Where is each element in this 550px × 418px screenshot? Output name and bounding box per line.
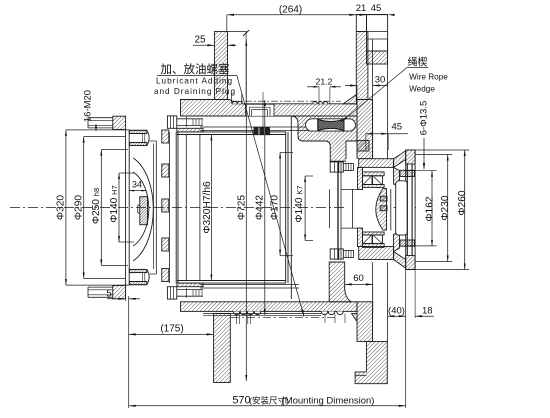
svg-text:30: 30 <box>375 75 386 86</box>
svg-text:Φ162: Φ162 <box>424 196 435 221</box>
svg-text:(264): (264) <box>279 5 302 16</box>
svg-text:5: 5 <box>106 289 112 300</box>
svg-text:Φ140 H7: Φ140 H7 <box>109 185 120 223</box>
svg-text:570: 570 <box>232 395 250 407</box>
svg-text:Φ442: Φ442 <box>254 195 265 220</box>
svg-text:60: 60 <box>353 273 364 284</box>
svg-text:Φ230: Φ230 <box>440 195 451 220</box>
svg-text:(175): (175) <box>160 324 183 335</box>
svg-text:Φ320H7/h6: Φ320H7/h6 <box>202 181 213 234</box>
svg-text:加、放油螺塞: 加、放油螺塞 <box>161 62 230 76</box>
svg-text:21: 21 <box>356 3 367 14</box>
svg-text:(Mounting Dimension): (Mounting Dimension) <box>282 395 375 406</box>
svg-text:Wire Rope: Wire Rope <box>409 73 448 82</box>
svg-text:25: 25 <box>194 35 206 46</box>
svg-text:Φ320: Φ320 <box>56 195 67 220</box>
svg-text:45: 45 <box>371 3 382 14</box>
svg-text:Lubricant Adding: Lubricant Adding <box>156 77 233 86</box>
svg-text:Wedge: Wedge <box>409 85 435 94</box>
svg-text:18: 18 <box>422 306 433 317</box>
svg-text:Φ140 K7: Φ140 K7 <box>294 185 305 222</box>
svg-text:21.2: 21.2 <box>316 77 333 87</box>
svg-text:and Draining Plug: and Draining Plug <box>154 87 236 96</box>
svg-text:45: 45 <box>392 122 403 133</box>
svg-text:6-Φ13.5: 6-Φ13.5 <box>418 101 429 136</box>
svg-text:Φ250 h8: Φ250 h8 <box>91 188 102 224</box>
svg-text:绳楔: 绳楔 <box>408 56 428 69</box>
svg-text:Φ725: Φ725 <box>236 195 247 220</box>
svg-text:16-M20: 16-M20 <box>83 90 94 122</box>
svg-text:(40): (40) <box>388 306 405 317</box>
svg-text:Φ290: Φ290 <box>74 195 85 220</box>
svg-text:34: 34 <box>132 180 142 190</box>
svg-text:Φ260: Φ260 <box>457 190 468 215</box>
